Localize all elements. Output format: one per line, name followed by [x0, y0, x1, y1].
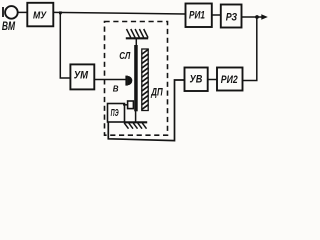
- fixed support top line: [126, 37, 148, 39]
- wire UV to RI2: [208, 79, 217, 81]
- wire RI1 to RZ: [212, 14, 221, 16]
- wire MU to RI1: [53, 12, 185, 14]
- svg-text:ДП: ДП: [151, 87, 164, 99]
- junction T: [59, 11, 62, 14]
- wire PE box to square: [123, 104, 128, 106]
- svg-text:МУ: МУ: [33, 10, 47, 21]
- dashed enclosure: [105, 22, 168, 136]
- suspension line SL: [135, 38, 137, 45]
- block RI1: [186, 4, 212, 28]
- svg-text:РЗ: РЗ: [226, 12, 237, 24]
- svg-text:ПЭ: ПЭ: [111, 108, 119, 119]
- fixed support top hatching: [127, 29, 149, 38]
- pickup contact square: [128, 101, 134, 109]
- junction dot: [255, 15, 259, 19]
- wire VM to MU: [18, 11, 28, 13]
- wire RI2 up to output junction: [243, 17, 257, 81]
- bottom link reed to floor: [135, 111, 137, 122]
- svg-text:СЛ: СЛ: [119, 51, 131, 62]
- svg-text:РИ2: РИ2: [221, 74, 238, 86]
- svg-text:В: В: [113, 85, 119, 94]
- block UV: [185, 68, 208, 92]
- plate DP hatched: [142, 49, 149, 111]
- motor VM circle: [5, 6, 18, 19]
- wire UM to vibrator B: [94, 79, 126, 81]
- svg-text:ВМ: ВМ: [2, 21, 16, 33]
- fixed support bottom hatching (ground): [124, 123, 146, 129]
- wire junction down to UM: [60, 13, 70, 79]
- vibrator B stylus: [125, 76, 132, 86]
- block UM: [70, 64, 94, 89]
- svg-text:РИ1: РИ1: [189, 10, 205, 22]
- svg-text:УМ: УМ: [74, 69, 89, 81]
- reed bar: [134, 45, 138, 111]
- output arrowhead: [261, 14, 268, 19]
- wire RZ to output: [242, 16, 264, 18]
- block RZ: [221, 5, 242, 28]
- motor VM shaft tick: [2, 7, 4, 17]
- svg-text:УВ: УВ: [190, 74, 203, 86]
- fixed support bottom line: [124, 121, 147, 123]
- block PE: [108, 104, 125, 123]
- wire PE to UV: [108, 80, 184, 141]
- block MU: [27, 3, 53, 27]
- block RI2: [217, 68, 243, 91]
